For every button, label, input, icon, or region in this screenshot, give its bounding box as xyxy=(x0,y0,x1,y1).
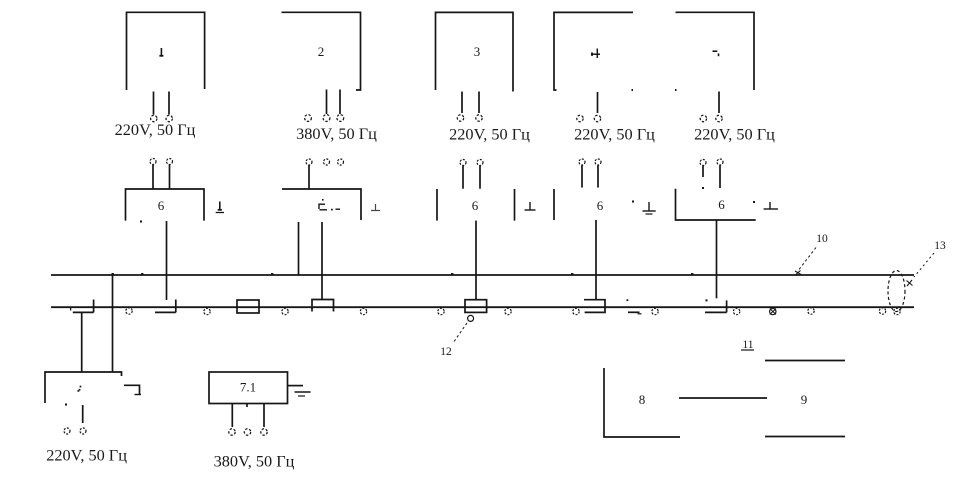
wire xyxy=(702,166,704,178)
svg-text:9: 9 xyxy=(801,392,808,407)
wire xyxy=(298,222,300,275)
terminal xyxy=(476,115,482,121)
svg-text:10: 10 xyxy=(816,233,828,245)
label 1 xyxy=(159,48,163,56)
terminal xyxy=(594,115,600,121)
terminal xyxy=(505,308,511,314)
terminal xyxy=(306,159,312,165)
terminal xyxy=(64,428,70,434)
switch S4 xyxy=(584,300,605,313)
bus top xyxy=(51,274,914,276)
svg-text:8: 8 xyxy=(639,392,646,407)
terminal xyxy=(733,308,739,314)
terminal xyxy=(244,429,250,435)
terminal xyxy=(324,159,330,165)
block 6 unit 5 xyxy=(676,189,756,220)
wire xyxy=(263,404,265,428)
label 1 underlined xyxy=(216,202,224,213)
label 7 faded xyxy=(78,386,82,392)
terminal xyxy=(879,308,885,314)
wire xyxy=(326,90,328,115)
terminal xyxy=(261,429,267,435)
wire xyxy=(152,165,154,190)
switch blade faded xyxy=(628,311,640,313)
terminal xyxy=(150,159,156,165)
terminal xyxy=(229,429,235,435)
node dot xyxy=(112,273,114,275)
block 6 unit 3 xyxy=(437,189,515,221)
switch S1 xyxy=(73,300,94,313)
wire xyxy=(478,92,480,114)
measurement ellipse 13 xyxy=(888,271,905,312)
terminal xyxy=(167,159,173,165)
ground xyxy=(764,202,778,209)
label 11 underlined xyxy=(741,339,754,351)
block 4 xyxy=(554,12,633,90)
wire xyxy=(82,405,84,423)
fuse F1 xyxy=(237,300,259,313)
switch S2 xyxy=(155,300,176,313)
svg-text:220V, 50 Гц: 220V, 50 Гц xyxy=(694,125,775,144)
terminal xyxy=(577,115,583,121)
terminal scribbled xyxy=(770,308,776,314)
block 7 xyxy=(45,372,122,403)
svg-text:380V, 50 Гц: 380V, 50 Гц xyxy=(214,452,295,471)
terminal xyxy=(166,115,172,121)
wire xyxy=(718,92,720,114)
svg-text:3: 3 xyxy=(474,44,481,59)
wire xyxy=(339,90,341,115)
terminal xyxy=(808,308,814,314)
terminal xyxy=(477,160,483,166)
node tick xyxy=(70,308,72,311)
wire xyxy=(597,92,599,113)
terminal xyxy=(323,115,330,122)
terminal xyxy=(305,115,312,122)
node dot xyxy=(271,273,273,275)
wire xyxy=(308,165,310,189)
label 4 xyxy=(592,49,600,59)
terminal xyxy=(652,308,658,314)
wire xyxy=(321,222,323,300)
ground earth xyxy=(643,202,656,214)
terminal xyxy=(595,159,601,165)
block 1 xyxy=(127,12,205,90)
terminal xyxy=(894,308,900,314)
leader line 13 xyxy=(914,253,934,277)
svg-text:6: 6 xyxy=(158,198,165,213)
terminal xyxy=(700,160,706,166)
terminal xyxy=(438,308,444,314)
ground xyxy=(525,202,536,210)
node scribble 10 xyxy=(795,271,801,275)
terminal xyxy=(579,159,585,165)
terminal xyxy=(716,115,722,121)
wire xyxy=(246,404,248,408)
svg-text:6: 6 xyxy=(597,198,604,213)
node dot xyxy=(691,273,693,275)
terminal xyxy=(204,308,210,314)
svg-text:220V, 50 Гц: 220V, 50 Гц xyxy=(449,125,530,144)
svg-text:220V, 50 Гц: 220V, 50 Гц xyxy=(46,446,127,465)
switch S3 xyxy=(312,300,334,312)
wire xyxy=(153,92,155,115)
leader line 12 xyxy=(453,323,467,343)
svg-text:6: 6 xyxy=(718,197,725,212)
terminal xyxy=(126,308,132,314)
wire xyxy=(595,220,597,300)
node dot xyxy=(627,299,629,301)
block 9 xyxy=(765,361,845,437)
terminal xyxy=(338,159,344,165)
wire xyxy=(719,166,721,189)
node dot xyxy=(632,201,634,203)
block 3 xyxy=(436,12,514,91)
svg-text:13: 13 xyxy=(934,240,946,252)
terminal xyxy=(457,115,463,121)
label 6.1 faded xyxy=(319,199,341,210)
ground faded xyxy=(371,204,380,211)
node dot xyxy=(706,299,708,301)
bus bottom xyxy=(51,306,914,308)
terminal xyxy=(460,160,466,166)
wire 8 to 9 xyxy=(679,397,767,399)
wire xyxy=(581,166,583,188)
fuse F2 xyxy=(465,300,487,313)
node dot xyxy=(571,273,573,275)
wire xyxy=(716,220,718,298)
terminal circle 12 xyxy=(468,315,474,321)
terminal xyxy=(80,428,86,434)
wire xyxy=(461,92,463,114)
wire xyxy=(597,166,599,188)
svg-text:2: 2 xyxy=(318,44,325,59)
ground earth xyxy=(288,386,311,396)
svg-text:380V, 50 Гц: 380V, 50 Гц xyxy=(296,124,377,143)
block 6 unit 1 xyxy=(126,189,205,221)
block 5 xyxy=(675,12,754,90)
node dot xyxy=(451,273,453,275)
svg-text:220V, 50 Гц: 220V, 50 Гц xyxy=(115,120,196,139)
node dot xyxy=(753,201,755,203)
svg-text:11: 11 xyxy=(742,339,753,351)
node dot xyxy=(141,273,143,275)
terminal xyxy=(282,308,288,314)
switch S5 xyxy=(705,300,727,312)
wire xyxy=(231,404,233,428)
block 2 xyxy=(282,12,361,90)
wire xyxy=(166,221,168,300)
svg-text:12: 12 xyxy=(440,346,452,358)
wire xyxy=(462,166,464,189)
terminal xyxy=(573,308,579,314)
wire xyxy=(168,92,170,115)
wire xyxy=(81,312,83,372)
wire xyxy=(475,221,477,300)
svg-text:7.1: 7.1 xyxy=(240,380,256,395)
node dot xyxy=(702,187,704,189)
block 8 xyxy=(604,368,680,437)
wire xyxy=(112,275,114,372)
wire xyxy=(169,165,171,190)
terminal xyxy=(337,115,344,122)
node dot xyxy=(140,221,142,223)
block 6 unit 4 xyxy=(553,189,555,220)
node scribble 13 xyxy=(907,280,913,286)
terminal xyxy=(151,115,157,121)
terminal xyxy=(700,115,706,121)
leader line 10 xyxy=(799,248,816,270)
label 5 xyxy=(713,51,719,56)
node dot xyxy=(65,404,67,406)
svg-text:220V, 50 Гц: 220V, 50 Гц xyxy=(574,125,655,144)
ground chassis xyxy=(124,385,141,394)
block 7.1 xyxy=(209,372,288,404)
terminal xyxy=(360,308,366,314)
terminal xyxy=(717,159,723,165)
wire xyxy=(479,166,481,189)
block 6 unit 2 xyxy=(282,189,361,220)
svg-text:6: 6 xyxy=(472,198,479,213)
